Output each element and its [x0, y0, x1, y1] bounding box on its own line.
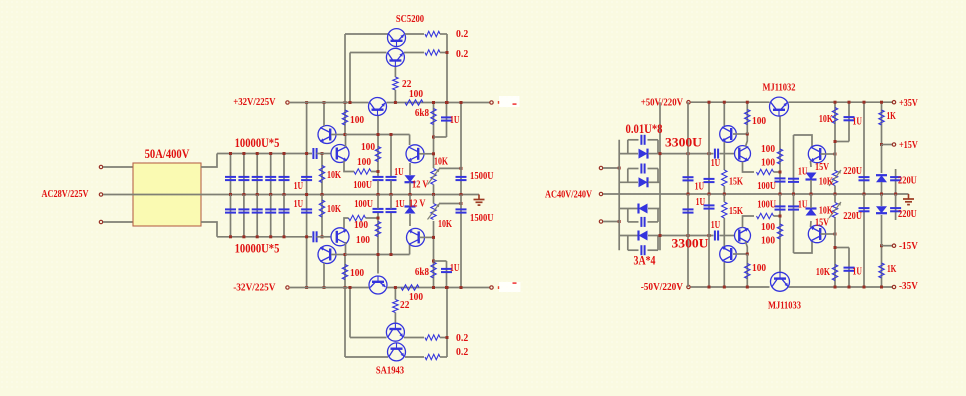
- wire: [420, 236, 434, 238]
- wire: [317, 153, 332, 155]
- wire: [404, 52, 424, 54]
- wire mid rail: [103, 194, 479, 196]
- capacitor 1U: [446, 261, 448, 288]
- resistor 6k8 top: [433, 103, 435, 169]
- transistor SC5200 #1: [388, 29, 406, 47]
- svg-text:1500U: 1500U: [470, 212, 494, 224]
- capacitor 10000U bottom #1: [230, 195, 232, 237]
- transformer 50A/400V: [133, 163, 201, 226]
- resistor 10K: [834, 217, 836, 287]
- junction: [687, 193, 690, 196]
- capacitor 10000U top #5: [283, 154, 285, 195]
- junction: [834, 233, 837, 236]
- wire: [317, 236, 332, 238]
- wire collector: [323, 103, 325, 127]
- zener 15V bottom: [806, 209, 817, 216]
- resistor 100 rail: [405, 100, 423, 105]
- svg-text:100: 100: [354, 219, 369, 231]
- svg-text:12 V: 12 V: [409, 198, 425, 210]
- terminal +32V: [286, 101, 289, 104]
- svg-text:AC40V/240V: AC40V/240V: [545, 189, 592, 201]
- junction: [848, 101, 851, 104]
- junction: [305, 101, 308, 104]
- wire mid rail right: [603, 193, 909, 195]
- transistor VAS top: [406, 145, 424, 163]
- svg-text:100: 100: [761, 221, 776, 233]
- junction: [323, 286, 326, 289]
- svg-text:MJ11032: MJ11032: [763, 82, 796, 94]
- wire: [344, 218, 349, 228]
- wire: [409, 163, 411, 175]
- wire wiper bottom: [439, 203, 461, 205]
- svg-text:10K: 10K: [819, 205, 833, 217]
- junction: [390, 133, 393, 136]
- wire collector: [323, 263, 325, 288]
- capacitor 100U top: [373, 176, 384, 178]
- capacitor 1U: [848, 102, 850, 141]
- wire: [440, 33, 447, 35]
- wire loop link: [627, 140, 629, 154]
- wire top bus: [217, 153, 312, 155]
- svg-text:220U: 220U: [843, 210, 862, 222]
- transistor SA1943 #1: [388, 343, 406, 361]
- capacitor 1U: [446, 103, 448, 138]
- wire positive feed: [660, 153, 714, 155]
- junction: [349, 286, 352, 289]
- junction: [256, 235, 259, 238]
- capacitor 1U top: [708, 102, 710, 194]
- wire: [774, 215, 781, 217]
- svg-text:SA1943: SA1943: [376, 365, 405, 377]
- wire: [394, 90, 396, 103]
- terminal +15V: [892, 143, 895, 146]
- wire: [331, 134, 345, 136]
- wire: [440, 356, 447, 358]
- junction: [659, 234, 662, 237]
- junction: [880, 101, 883, 104]
- wire: [377, 195, 379, 209]
- svg-text:0.2: 0.2: [456, 48, 469, 60]
- svg-text:15V: 15V: [815, 217, 829, 229]
- svg-text:1U: 1U: [853, 266, 862, 278]
- svg-text:100: 100: [356, 234, 371, 246]
- wire: [103, 166, 133, 168]
- resistor 100 emitter top: [354, 169, 371, 174]
- terminal rail end: [490, 101, 493, 104]
- wire +15V: [882, 144, 893, 146]
- svg-text:-32V/225V: -32V/225V: [233, 282, 275, 294]
- wire: [723, 194, 725, 202]
- wire: [720, 235, 735, 237]
- ground: [908, 194, 910, 199]
- svg-text:1U: 1U: [450, 114, 459, 126]
- transistor VAS bottom: [407, 228, 425, 246]
- svg-text:-15V: -15V: [899, 240, 918, 252]
- wire: [723, 262, 725, 287]
- wire: [349, 288, 351, 338]
- svg-text:1U: 1U: [711, 157, 720, 169]
- junction: [432, 286, 435, 289]
- wire bridge right rail: [659, 102, 661, 250]
- transistor Q3 top: [808, 145, 825, 162]
- capacitor 1500U bottom: [460, 195, 462, 288]
- terminal AC2 bottom: [599, 220, 602, 223]
- junction: [390, 253, 393, 256]
- svg-text:0.2: 0.2: [456, 346, 469, 358]
- wire: [810, 194, 812, 208]
- junction: [708, 286, 711, 289]
- capacitor 220U: [863, 194, 865, 287]
- capacitor 0.01U: [628, 221, 639, 223]
- svg-text:1U: 1U: [853, 116, 862, 128]
- wire loop link: [627, 236, 629, 251]
- wire: [344, 288, 346, 358]
- capacitor 0.01U: [628, 139, 639, 141]
- wire bottom bus: [217, 236, 312, 238]
- wire node: [345, 134, 410, 136]
- wire: [810, 161, 813, 167]
- wire -50V rail: [691, 286, 770, 288]
- svg-text:3300U: 3300U: [672, 237, 709, 251]
- svg-text:1U: 1U: [696, 196, 705, 208]
- svg-text:0.01U*8: 0.01U*8: [626, 122, 663, 136]
- wire: [810, 221, 813, 227]
- capacitor 1U bottom: [708, 194, 710, 287]
- junction: [460, 101, 463, 104]
- wire base column bottom: [377, 213, 379, 274]
- junction: [708, 101, 711, 104]
- svg-text:1U: 1U: [711, 219, 720, 231]
- wire: [350, 52, 387, 54]
- wire: [440, 337, 447, 339]
- svg-text:1U: 1U: [695, 181, 704, 193]
- svg-text:220U: 220U: [843, 165, 862, 177]
- svg-text:6k8: 6k8: [415, 107, 430, 119]
- wire -15V: [882, 245, 893, 247]
- svg-text:12 V: 12 V: [412, 179, 428, 191]
- junction: [834, 286, 837, 289]
- wire: [723, 142, 725, 170]
- wire: [349, 53, 351, 103]
- capacitor 220U: [863, 102, 865, 194]
- wire bridge left rail: [618, 140, 620, 250]
- svg-text:10000U*5: 10000U*5: [235, 242, 280, 256]
- junction: [810, 193, 813, 196]
- svg-text:1U: 1U: [294, 198, 303, 210]
- wire +50V rail: [789, 101, 893, 103]
- wire: [201, 154, 217, 168]
- wire: [723, 102, 725, 126]
- wire loop link: [627, 169, 629, 183]
- resistor 100 v bottom: [779, 216, 781, 273]
- svg-text:100: 100: [761, 235, 776, 247]
- svg-text:100: 100: [350, 267, 365, 279]
- junction: [321, 152, 324, 155]
- ground: [478, 195, 480, 200]
- wire: [345, 33, 388, 35]
- capacitor 10000U bottom #2: [243, 195, 245, 237]
- junction: [880, 286, 883, 289]
- wire: [390, 135, 392, 177]
- junction: [460, 202, 463, 205]
- junction: [349, 101, 352, 104]
- junction: [242, 235, 245, 238]
- svg-text:1U: 1U: [798, 166, 807, 178]
- wire: [404, 337, 424, 339]
- resistor 0.2: [425, 335, 440, 340]
- junction: [283, 235, 286, 238]
- junction: [229, 152, 232, 155]
- capacitor 10000U top #2: [243, 154, 245, 195]
- transistor input top A: [318, 126, 336, 144]
- junction: [746, 286, 749, 289]
- white patch: [499, 96, 520, 107]
- terminal AC2 top: [599, 166, 602, 169]
- svg-text:220U: 220U: [898, 208, 917, 220]
- wire: [446, 34, 448, 103]
- resistor 10K lower: [321, 195, 323, 237]
- terminal -15V: [892, 244, 895, 247]
- junction: [848, 286, 851, 289]
- svg-text:0.2: 0.2: [456, 332, 469, 344]
- wire: [344, 34, 346, 103]
- wire: [794, 135, 813, 147]
- wire column: [306, 103, 308, 288]
- resistor 10K upper: [321, 154, 323, 195]
- wire: [434, 260, 447, 262]
- transistor SA1943 #2: [386, 323, 404, 341]
- junction: [863, 193, 866, 196]
- svg-text:22: 22: [400, 299, 410, 311]
- junction: [723, 286, 726, 289]
- terminal +50V: [687, 101, 690, 104]
- junction: [618, 220, 621, 223]
- wire: [390, 195, 392, 209]
- resistor 100 h bottom: [757, 213, 774, 218]
- svg-text:+32V/225V: +32V/225V: [233, 96, 275, 108]
- svg-text:100: 100: [361, 141, 376, 153]
- resistor 100: [375, 222, 380, 237]
- terminal AC input top: [99, 165, 102, 168]
- junction: [445, 286, 448, 289]
- transistor driver bottom: [369, 276, 387, 294]
- resistor 15K top: [722, 170, 727, 186]
- svg-text:10K: 10K: [816, 266, 830, 278]
- capacitor 10000U top #4: [270, 154, 272, 195]
- transistor Q1 top: [720, 126, 737, 143]
- transistor input bottom B: [331, 228, 349, 246]
- junction: [432, 193, 435, 196]
- junction: [269, 235, 272, 238]
- capacitor 3300U bottom: [687, 194, 689, 287]
- wire: [603, 221, 619, 223]
- svg-text:+35V: +35V: [899, 97, 918, 109]
- zener 12V bottom: [405, 207, 416, 214]
- capacitor 1U series top: [714, 149, 716, 159]
- svg-text:SC5200: SC5200: [396, 13, 425, 25]
- svg-text:15K: 15K: [729, 176, 743, 188]
- wire: [405, 33, 424, 35]
- capacitor coupling bottom: [312, 231, 314, 242]
- svg-text:1K: 1K: [887, 263, 897, 275]
- svg-text:100U: 100U: [757, 180, 776, 192]
- transistor Q2 top: [735, 146, 751, 162]
- wire: [390, 181, 392, 195]
- junction: [229, 235, 232, 238]
- svg-text:10000U*5: 10000U*5: [235, 136, 280, 150]
- svg-text:100: 100: [409, 291, 424, 303]
- wire: [743, 162, 755, 172]
- capacitor 0.01U: [628, 249, 639, 251]
- svg-text:1U: 1U: [450, 262, 459, 274]
- transistor Q1 bottom: [720, 246, 737, 263]
- capacitor coupling top: [312, 148, 314, 159]
- junction: [321, 235, 324, 238]
- resistor 100: [746, 102, 748, 134]
- svg-text:6k8: 6k8: [415, 266, 430, 278]
- resistor 100 bottom: [344, 255, 346, 288]
- wire: [723, 186, 725, 194]
- junction: [445, 101, 448, 104]
- junction: [377, 253, 380, 256]
- svg-text:-50V/220V: -50V/220V: [641, 281, 683, 293]
- wire -32V rail: [290, 287, 369, 289]
- trimmer 10K top: [431, 169, 436, 185]
- resistor 22: [393, 77, 398, 90]
- resistor 0.2: [425, 354, 440, 359]
- terminal AC2 mid: [599, 192, 602, 195]
- junction: [344, 286, 347, 289]
- terminal -50V: [687, 285, 690, 288]
- svg-text:100: 100: [357, 156, 372, 168]
- svg-text:15K: 15K: [729, 205, 743, 217]
- resistor 100: [746, 254, 748, 287]
- transistor input bottom A: [318, 246, 336, 264]
- diode 3A: [619, 181, 638, 183]
- svg-text:10K: 10K: [438, 218, 452, 230]
- wire base: [821, 153, 836, 155]
- junction: [344, 101, 347, 104]
- wire: [394, 66, 396, 77]
- resistor 100 rail: [401, 285, 419, 290]
- junction: [446, 336, 449, 339]
- wire: [409, 183, 411, 195]
- wire -32V rail: [387, 287, 490, 289]
- junction: [746, 133, 749, 136]
- capacitor 10000U bottom #4: [270, 195, 272, 237]
- wire: [331, 254, 345, 256]
- transistor MJ11033: [771, 272, 790, 291]
- wire: [603, 167, 619, 169]
- wire: [733, 133, 747, 135]
- zener 15V top: [806, 173, 817, 180]
- terminal AC input bottom: [99, 220, 102, 223]
- svg-text:100: 100: [752, 262, 767, 274]
- resistor 100: [344, 103, 346, 135]
- svg-text:22: 22: [402, 78, 412, 90]
- svg-text:10K: 10K: [434, 156, 448, 168]
- resistor 100 v top: [779, 116, 781, 172]
- wire: [446, 288, 448, 358]
- capacitor 100U top: [779, 172, 781, 194]
- junction: [460, 167, 463, 170]
- wire: [409, 195, 411, 207]
- resistor 100 h top: [757, 169, 774, 174]
- svg-text:1U: 1U: [394, 166, 403, 178]
- wire: [345, 135, 347, 148]
- wire: [720, 153, 735, 155]
- svg-text:1K: 1K: [887, 110, 897, 122]
- junction: [377, 133, 380, 136]
- wire: [390, 213, 392, 255]
- junction: [746, 101, 749, 104]
- terminal -35V: [892, 285, 895, 288]
- junction: [723, 101, 726, 104]
- wire: [440, 52, 447, 54]
- svg-text:100: 100: [752, 115, 767, 127]
- svg-text:10K: 10K: [327, 169, 341, 181]
- wire loop link: [627, 209, 629, 222]
- wire: [434, 136, 447, 138]
- svg-text:100: 100: [761, 157, 776, 169]
- junction: [409, 193, 412, 196]
- svg-text:1U: 1U: [395, 198, 404, 210]
- capacitor 1U upper: [301, 176, 312, 178]
- junction: [446, 51, 449, 54]
- capacitor 1500U top: [460, 103, 462, 195]
- wire: [774, 171, 781, 173]
- transistor driver top: [369, 98, 387, 116]
- svg-text:1500U: 1500U: [470, 170, 494, 182]
- wire -50V rail: [789, 286, 893, 288]
- wire +50V rail: [691, 101, 770, 103]
- junction: [432, 101, 435, 104]
- wire node: [345, 254, 410, 256]
- svg-text:MJ11033: MJ11033: [768, 300, 801, 312]
- wire +32V rail: [290, 102, 369, 104]
- svg-text:+15V: +15V: [899, 139, 918, 151]
- resistor 0.2: [425, 31, 440, 36]
- resistor 1K: [881, 102, 883, 144]
- svg-text:1U: 1U: [294, 180, 303, 192]
- junction: [394, 286, 397, 289]
- capacitor 1U: [386, 208, 397, 210]
- svg-text:+50V/220V: +50V/220V: [641, 97, 683, 109]
- white patch: [499, 282, 521, 292]
- resistor 6k8 bottom: [433, 221, 435, 288]
- wire base: [821, 233, 836, 235]
- capacitor 1U: [793, 194, 795, 253]
- svg-text:10K: 10K: [819, 176, 833, 188]
- svg-text:100: 100: [761, 143, 776, 155]
- diode bottom: [881, 215, 883, 246]
- junction: [779, 215, 782, 218]
- junction: [659, 152, 662, 155]
- resistor 0.2: [425, 50, 440, 55]
- wire: [723, 218, 725, 246]
- resistor 100 emitter bottom: [349, 215, 366, 220]
- capacitor 220U: [895, 194, 897, 220]
- wire: [344, 161, 354, 172]
- diode 3A: [619, 235, 638, 237]
- diode 3A: [619, 208, 638, 210]
- wire: [409, 135, 411, 146]
- svg-text:1U: 1U: [798, 199, 807, 211]
- junction: [269, 152, 272, 155]
- capacitor 100U bottom: [373, 208, 384, 210]
- junction: [894, 193, 897, 196]
- svg-text:-35V: -35V: [899, 280, 918, 292]
